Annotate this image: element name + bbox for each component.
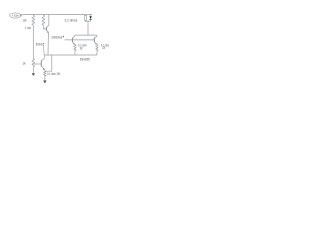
svg-text:12k: 12k (23, 18, 27, 22)
svg-text:2N3055: 2N3055 (80, 57, 90, 61)
svg-text:0.1 ohm 1W: 0.1 ohm 1W (47, 72, 61, 76)
svg-text:1k: 1k (23, 61, 26, 65)
svg-text:50ma: 50ma (36, 42, 43, 46)
svg-text:2.2 ohms: 2.2 ohms (65, 19, 78, 23)
svg-text:1W: 1W (80, 46, 83, 50)
svg-text:1 ma: 1 ma (25, 26, 31, 30)
svg-text:100ma: 100ma (51, 35, 62, 39)
svg-text:+15v: +15v (12, 15, 20, 18)
svg-text:1W: 1W (102, 46, 105, 50)
